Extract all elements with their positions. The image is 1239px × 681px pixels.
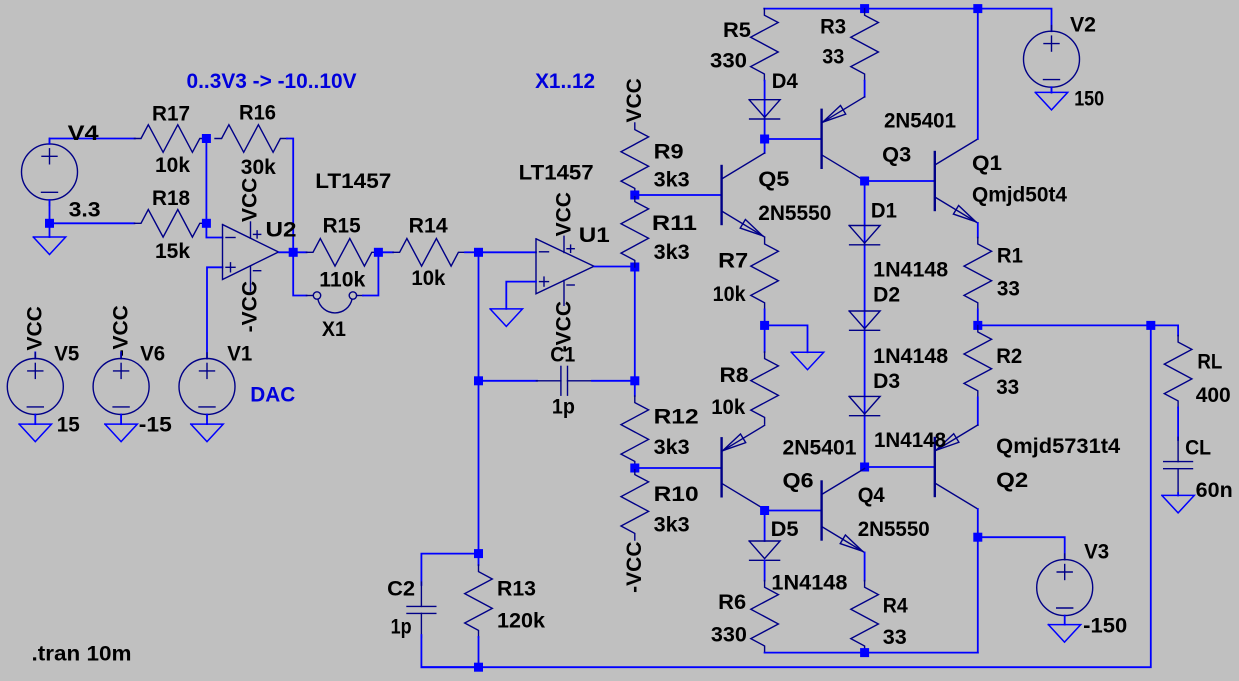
voltage source V6 xyxy=(93,353,149,420)
resistor R15 xyxy=(306,239,378,267)
diode D5 xyxy=(749,541,780,560)
wire junction to R8 xyxy=(764,325,766,352)
voltage source V5 xyxy=(7,353,63,420)
svg-text:U1: U1 xyxy=(579,224,610,247)
svg-text:2N5401: 2N5401 xyxy=(783,437,857,460)
wire to U1 inverting input xyxy=(479,251,537,253)
svg-text:400: 400 xyxy=(1196,384,1231,407)
svg-text:D1: D1 xyxy=(871,200,897,223)
wire V4 to R18 xyxy=(50,222,135,224)
ground xyxy=(791,352,823,370)
wire R1 to output xyxy=(977,309,979,325)
svg-text:-VCC: -VCC xyxy=(109,305,132,356)
transistor Q5 xyxy=(722,153,765,237)
junction xyxy=(630,464,639,473)
svg-text:U2: U2 xyxy=(266,219,297,242)
wire R3 to Q3 emitter xyxy=(864,81,866,97)
svg-text:1p: 1p xyxy=(552,395,575,418)
wire to Q5 base xyxy=(635,194,722,196)
wire R2 to Q2 emitter xyxy=(977,397,979,425)
junction xyxy=(760,506,769,515)
svg-text:V3: V3 xyxy=(1084,541,1109,564)
svg-text:R3: R3 xyxy=(820,16,846,39)
svg-text:-VCC: -VCC xyxy=(238,281,261,332)
svg-text:2N5550: 2N5550 xyxy=(758,202,831,225)
transistor Q6 xyxy=(722,425,765,509)
svg-text:V6: V6 xyxy=(140,342,165,365)
wire V2 to ground xyxy=(1051,87,1053,92)
resistor R11 xyxy=(621,195,649,267)
wire U2 + input to V1 xyxy=(207,267,223,358)
svg-text:330: 330 xyxy=(711,624,747,647)
wire to Q4 base xyxy=(765,510,822,512)
junction xyxy=(973,4,982,13)
resistor R6 xyxy=(751,581,779,653)
wire RL to CL xyxy=(1177,408,1179,441)
wire V3 to ground xyxy=(1064,616,1066,625)
resistor R3 xyxy=(851,9,879,81)
svg-text:R7: R7 xyxy=(718,249,748,272)
svg-text:2N5401: 2N5401 xyxy=(884,110,956,133)
wire U2 output xyxy=(279,251,307,253)
svg-text:X1..12: X1..12 xyxy=(535,70,595,93)
resistor R2 xyxy=(964,325,992,397)
svg-text:V2: V2 xyxy=(1070,14,1096,37)
junction xyxy=(474,248,483,257)
svg-text:X1: X1 xyxy=(322,318,346,341)
junction xyxy=(1146,321,1155,330)
junction xyxy=(474,549,483,558)
transistor Q2 xyxy=(935,425,978,509)
wire R5 to D4 junction xyxy=(764,81,766,139)
svg-text:VCC: VCC xyxy=(238,178,261,222)
svg-text:10k: 10k xyxy=(713,283,746,306)
svg-text:Q1: Q1 xyxy=(972,152,1002,175)
wire CL to ground xyxy=(1177,493,1179,495)
op-amp U1 xyxy=(536,236,594,305)
ground xyxy=(1048,625,1080,643)
svg-text:R13: R13 xyxy=(497,578,536,601)
svg-text:.tran 10m: .tran 10m xyxy=(32,643,132,666)
wire U1 input column down xyxy=(478,252,480,553)
wire Q3 collector to Q1 base xyxy=(865,180,935,182)
wire R15 to R14 xyxy=(378,251,393,253)
diode D4 xyxy=(749,100,780,119)
capacitor CL xyxy=(1164,437,1193,493)
svg-text:V1: V1 xyxy=(227,342,252,365)
svg-text:LT1457: LT1457 xyxy=(519,162,594,185)
svg-text:R8: R8 xyxy=(720,364,749,387)
svg-text:10k: 10k xyxy=(711,396,745,419)
wire V6 pin xyxy=(120,352,122,358)
wire to mid ground xyxy=(765,325,808,352)
resistor RL xyxy=(1164,336,1192,408)
junction xyxy=(860,177,869,186)
wire to Q5 collector xyxy=(764,139,766,153)
voltage source V2 xyxy=(1024,26,1080,93)
wire output row xyxy=(978,324,1151,326)
transistor Q1 xyxy=(935,139,978,223)
resistor R5 xyxy=(751,9,779,81)
resistor R9 xyxy=(621,123,649,195)
junction xyxy=(630,376,639,385)
diode D2 xyxy=(849,311,880,330)
svg-text:15k: 15k xyxy=(155,240,190,263)
svg-text:VCC: VCC xyxy=(24,306,47,350)
svg-text:R2: R2 xyxy=(996,345,1022,368)
wire to Q6 base xyxy=(635,467,722,469)
svg-text:C1: C1 xyxy=(550,343,575,366)
svg-text:R18: R18 xyxy=(152,187,190,210)
wire feedback to X1 xyxy=(293,252,306,295)
svg-text:30k: 30k xyxy=(241,156,276,179)
wire to C1 xyxy=(479,380,538,382)
svg-text:R4: R4 xyxy=(883,594,908,617)
svg-text:C2: C2 xyxy=(387,578,415,601)
junction xyxy=(202,134,211,143)
junction xyxy=(973,533,982,542)
svg-text:110k: 110k xyxy=(319,268,365,291)
svg-text:R9: R9 xyxy=(654,140,684,163)
wire Q6 collector to D5 xyxy=(764,509,766,541)
junction xyxy=(630,263,639,272)
wire U1 output down to C1 xyxy=(634,267,636,381)
svg-text:Q4: Q4 xyxy=(858,484,885,507)
resistor R1 xyxy=(964,237,992,309)
ground xyxy=(1162,495,1194,513)
junction xyxy=(973,321,982,330)
svg-text:Qmjd5731t4: Qmjd5731t4 xyxy=(996,435,1120,458)
junction xyxy=(860,4,869,13)
svg-text:VCC: VCC xyxy=(623,78,646,122)
svg-text:VCC: VCC xyxy=(553,192,576,236)
wire to R13 xyxy=(478,554,480,565)
svg-text:10k: 10k xyxy=(411,267,445,290)
ground xyxy=(33,237,65,255)
svg-text:R5: R5 xyxy=(723,19,751,42)
svg-text:3k3: 3k3 xyxy=(654,436,690,459)
svg-text:Q3: Q3 xyxy=(882,144,911,167)
wire V5 pin xyxy=(34,352,36,358)
wire U1 + input to ground xyxy=(506,282,536,309)
diode D1 xyxy=(849,226,880,245)
svg-text:33: 33 xyxy=(822,46,844,69)
svg-text:D5: D5 xyxy=(771,518,799,541)
svg-text:V5: V5 xyxy=(54,342,79,365)
wire to Q2 base xyxy=(865,466,935,468)
svg-text:CL: CL xyxy=(1185,437,1211,460)
ground xyxy=(191,424,223,442)
junction xyxy=(760,321,769,330)
wire V4 to ground xyxy=(49,200,51,237)
svg-text:R14: R14 xyxy=(409,214,448,237)
wire diode chain xyxy=(864,181,866,467)
svg-text:D4: D4 xyxy=(772,70,798,93)
wire Q1 emitter to R1 xyxy=(977,223,979,237)
svg-text:Qmjd50t4: Qmjd50t4 xyxy=(972,184,1067,207)
wire R17 junction to R18 junction xyxy=(205,139,207,224)
resistor R4 xyxy=(851,581,879,653)
voltage source V3 xyxy=(1037,554,1093,621)
wire R7 to junction xyxy=(764,309,766,325)
svg-text:2N5550: 2N5550 xyxy=(858,518,930,541)
wire to Q3 base xyxy=(765,138,822,140)
svg-text:1N4148: 1N4148 xyxy=(771,572,847,595)
svg-text:3k3: 3k3 xyxy=(654,241,690,264)
op-amp U2 xyxy=(223,222,279,291)
wire V6 to ground xyxy=(120,415,122,425)
svg-text:3k3: 3k3 xyxy=(654,514,690,537)
junction xyxy=(860,463,869,472)
resistor R13 xyxy=(465,565,493,637)
svg-text:R10: R10 xyxy=(654,483,699,506)
resistor R10 xyxy=(621,468,649,540)
transistor Q4 xyxy=(822,469,865,553)
svg-text:R12: R12 xyxy=(654,405,699,428)
resistor R8 xyxy=(751,352,779,424)
voltage source V1 xyxy=(179,353,235,420)
svg-text:1p: 1p xyxy=(391,616,412,639)
svg-text:RL: RL xyxy=(1197,351,1222,374)
ground xyxy=(490,309,522,327)
voltage source V4 xyxy=(22,138,78,205)
svg-text:Q5: Q5 xyxy=(758,168,789,191)
junction xyxy=(474,663,483,672)
wire Q2 collector down xyxy=(977,509,979,653)
wire X1 to R15 output xyxy=(363,252,378,295)
wire V4 to R17 xyxy=(50,139,135,144)
svg-text:D3: D3 xyxy=(873,370,900,393)
svg-text:1N4148: 1N4148 xyxy=(873,259,948,282)
resistor R18 xyxy=(134,210,206,238)
junction xyxy=(374,248,383,257)
junction xyxy=(630,191,639,200)
wire to C2 xyxy=(421,554,478,585)
svg-text:Q6: Q6 xyxy=(783,470,814,493)
svg-text:R1: R1 xyxy=(997,245,1023,268)
wire to V3 xyxy=(978,537,1065,559)
svg-text:DAC: DAC xyxy=(250,384,295,407)
wire R14 to U1 xyxy=(465,251,479,253)
svg-text:V4: V4 xyxy=(68,122,99,145)
wire bottom rail xyxy=(421,325,1150,667)
resistor R7 xyxy=(751,237,779,309)
svg-text:3k3: 3k3 xyxy=(654,168,690,191)
svg-text:3.3: 3.3 xyxy=(69,198,101,221)
resistor R12 xyxy=(621,396,649,468)
wire D5 to R6 xyxy=(764,561,766,581)
wire C1 to column xyxy=(592,380,635,382)
wire V5 to ground xyxy=(34,415,36,425)
svg-text:R15: R15 xyxy=(323,214,361,237)
svg-text:1N4148: 1N4148 xyxy=(873,345,948,368)
wire R16 to U2 output xyxy=(287,139,293,253)
wire R13 to bottom rail xyxy=(478,637,480,667)
ground xyxy=(105,424,137,442)
svg-text:120k: 120k xyxy=(497,610,545,633)
svg-text:R16: R16 xyxy=(239,102,276,125)
svg-text:R17: R17 xyxy=(152,103,190,126)
svg-text:33: 33 xyxy=(883,626,907,649)
wire V1 to ground xyxy=(206,415,208,425)
ground xyxy=(1035,92,1067,110)
svg-text:-VCC: -VCC xyxy=(623,542,646,593)
resistor R17 xyxy=(134,125,206,153)
svg-text:D2: D2 xyxy=(873,284,900,307)
wire to R12 xyxy=(634,381,636,396)
svg-text:330: 330 xyxy=(710,49,747,72)
wire to RL xyxy=(1151,325,1178,335)
subcircuit X1 xyxy=(306,292,363,313)
svg-text:Q2: Q2 xyxy=(996,469,1028,492)
svg-text:0..3V3 -> -10..10V: 0..3V3 -> -10..10V xyxy=(187,70,357,93)
wire bottom negative row xyxy=(765,652,978,654)
svg-text:15: 15 xyxy=(57,414,80,437)
junction xyxy=(860,648,869,657)
svg-text:150: 150 xyxy=(1074,88,1104,111)
junction xyxy=(760,135,769,144)
svg-text:LT1457: LT1457 xyxy=(315,170,391,193)
svg-text:R11: R11 xyxy=(652,212,697,235)
junction xyxy=(202,219,211,228)
junction xyxy=(45,219,54,228)
svg-text:R6: R6 xyxy=(718,591,746,614)
wire to U2 inverting input xyxy=(206,223,222,237)
ground xyxy=(19,424,51,442)
wire C2 to bottom rail xyxy=(421,635,478,667)
svg-text:-150: -150 xyxy=(1083,615,1127,638)
svg-text:60n: 60n xyxy=(1196,479,1233,502)
wire Q1 collector to rail xyxy=(977,9,979,139)
transistor Q3 xyxy=(822,97,865,181)
svg-text:33: 33 xyxy=(997,278,1020,301)
svg-text:1N4148: 1N4148 xyxy=(874,429,946,452)
junction xyxy=(474,376,483,385)
capacitor C2 xyxy=(407,582,436,638)
diode D3 xyxy=(849,396,880,415)
svg-text:-15: -15 xyxy=(139,414,172,437)
junction xyxy=(289,248,298,257)
resistor R14 xyxy=(393,239,465,267)
resistor R16 xyxy=(215,125,287,153)
wire top rail to V2 xyxy=(764,9,1051,32)
svg-text:10k: 10k xyxy=(155,154,190,177)
wire Q4 emitter to R4 xyxy=(864,553,866,581)
capacitor C1 xyxy=(536,366,592,395)
svg-text:33: 33 xyxy=(996,376,1019,399)
wire U1 output xyxy=(595,266,635,268)
